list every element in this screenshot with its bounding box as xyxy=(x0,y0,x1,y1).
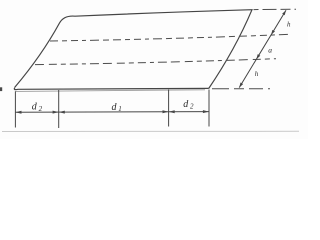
svg-text:2: 2 xyxy=(190,103,194,111)
svg-text:h: h xyxy=(255,70,259,78)
svg-text:h: h xyxy=(287,20,291,28)
svg-text:a: a xyxy=(268,46,272,55)
svg-text:1: 1 xyxy=(118,105,122,113)
svg-text:d: d xyxy=(183,99,189,110)
svg-text:d: d xyxy=(32,102,38,113)
svg-text:2: 2 xyxy=(39,105,43,113)
